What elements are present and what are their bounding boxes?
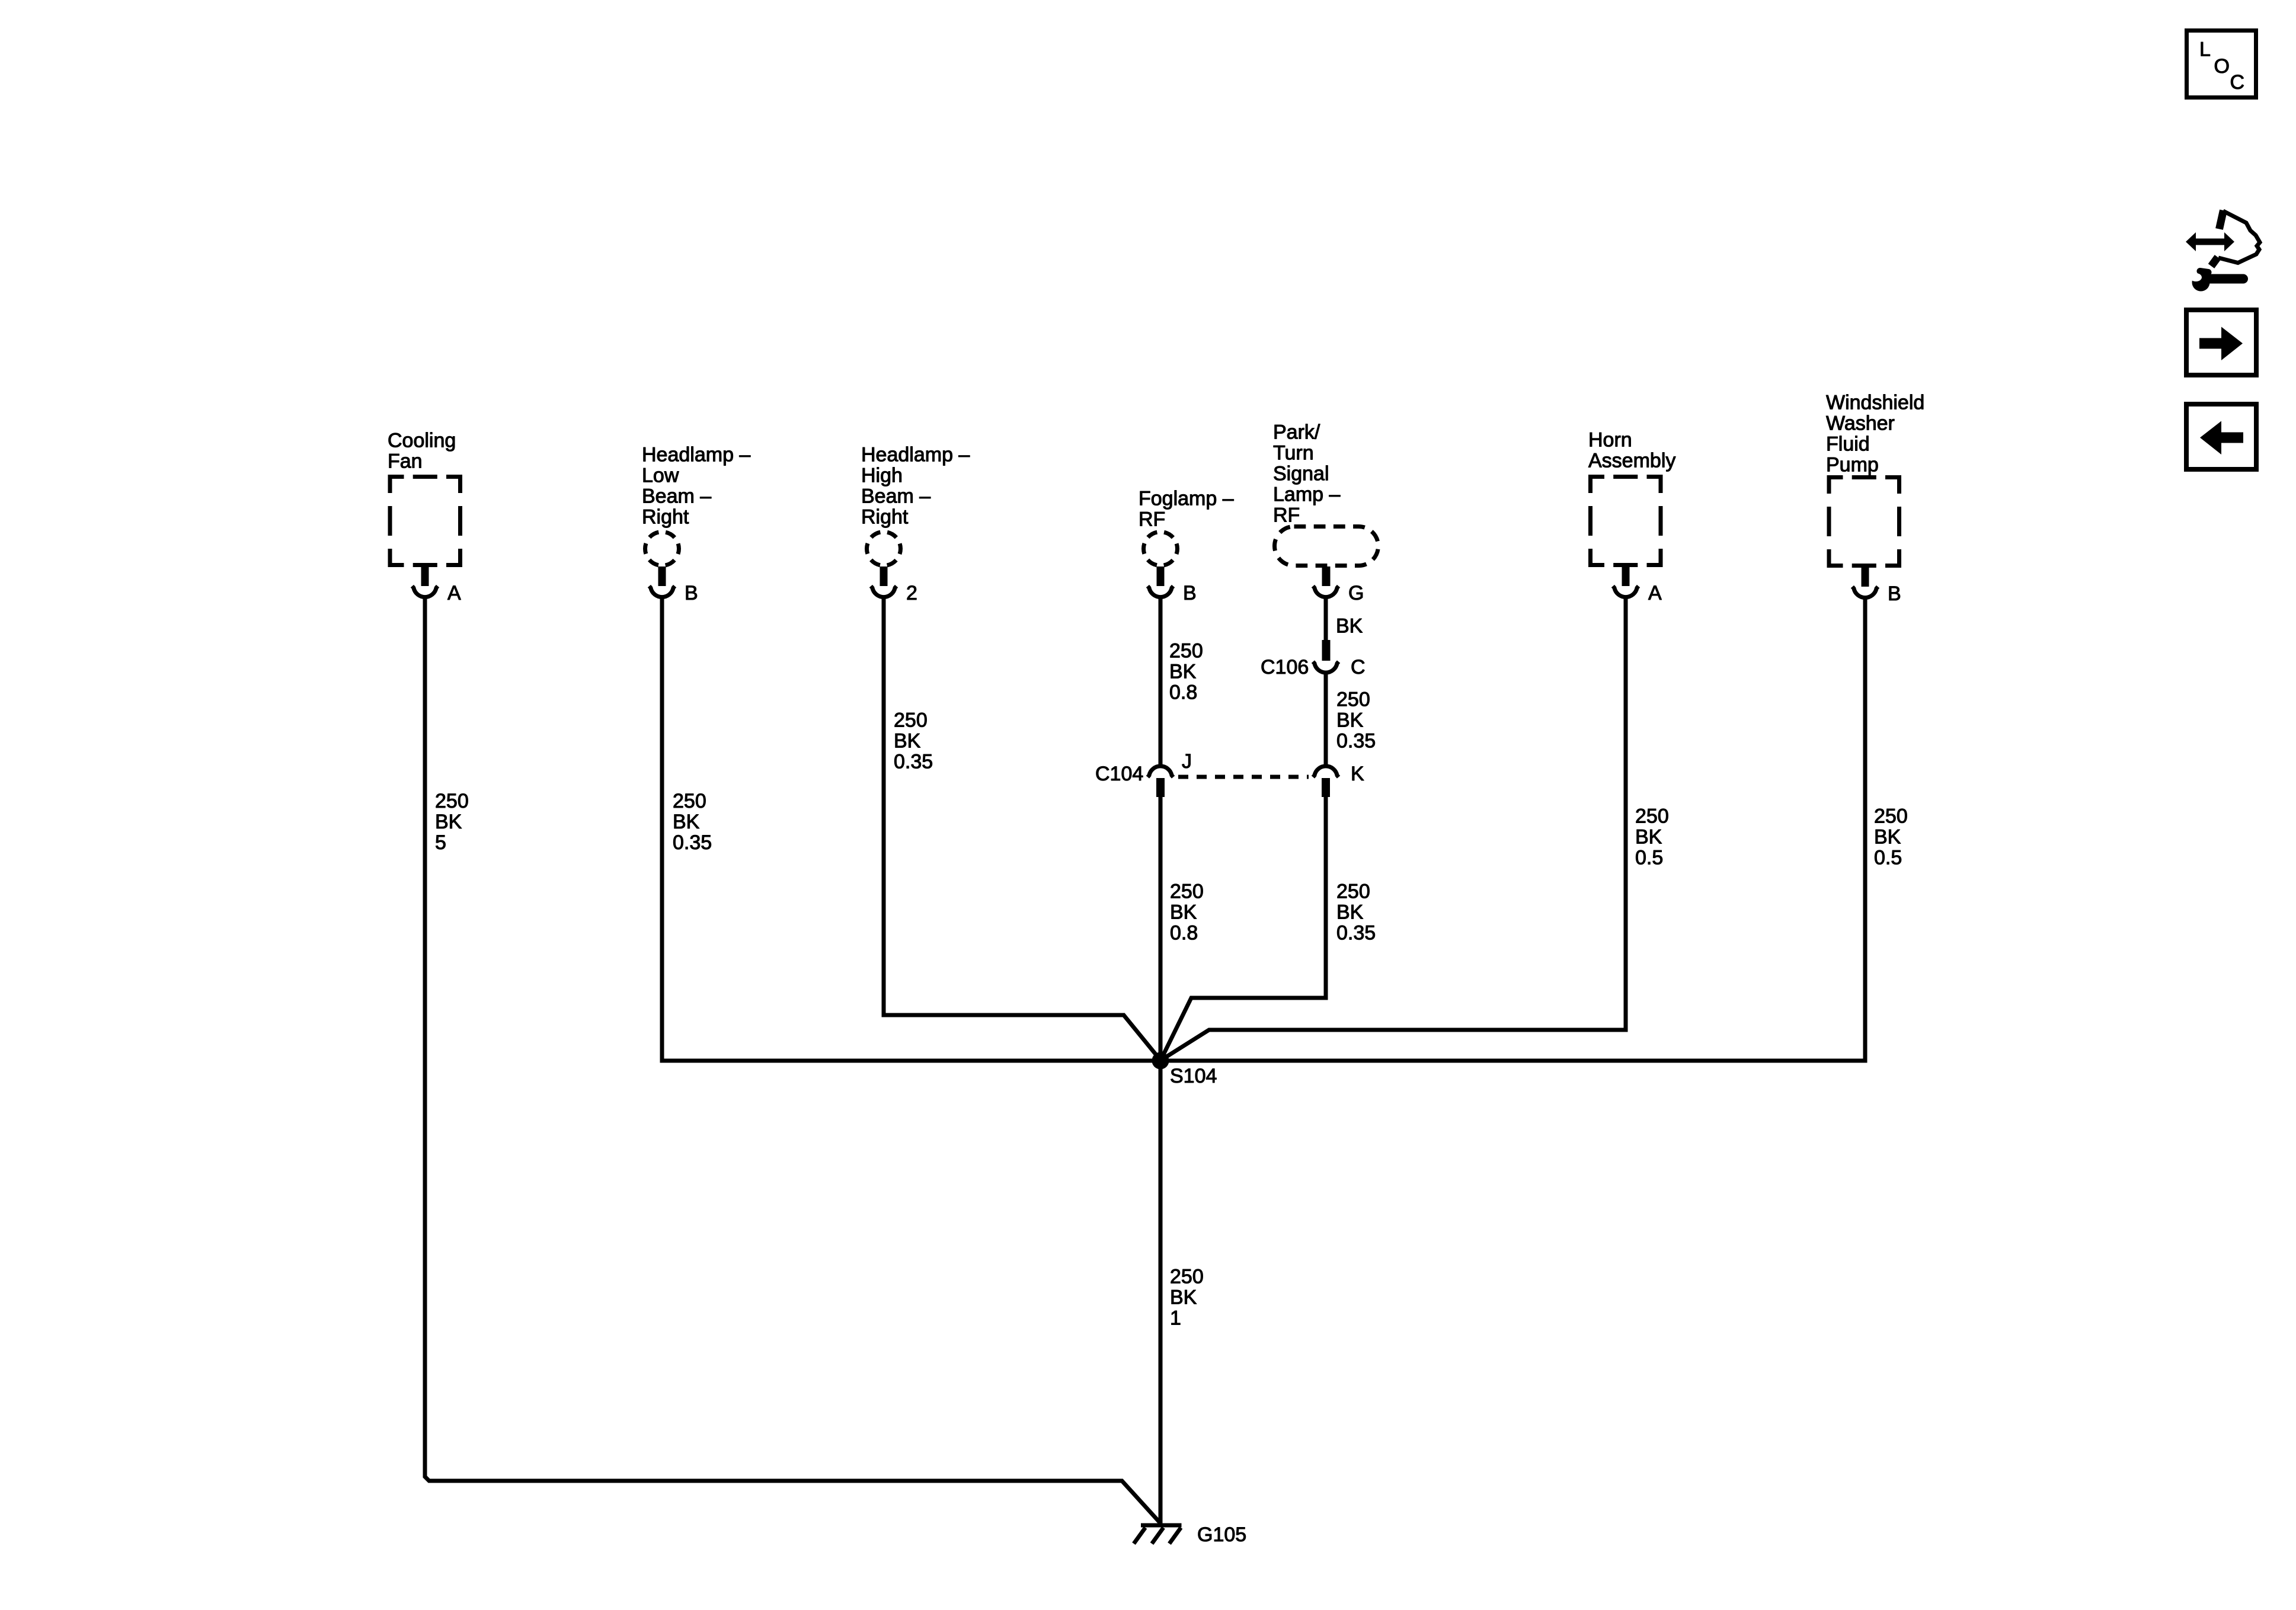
svg-text:B: B <box>1183 582 1197 604</box>
cooling fan connector cavity A <box>412 586 437 597</box>
wire: cooling fan pin A down, across, to G105 <box>425 597 1160 1523</box>
cooling fan component box (dashed) <box>390 477 461 565</box>
connector C104 cavity J <box>1147 766 1173 777</box>
LOC hotlink box <box>2187 31 2256 98</box>
park/turn signal lamp stadium outline (dashed) <box>1275 527 1379 566</box>
wire: C106 pin C down to C104 pin K <box>1324 674 1328 765</box>
connector C104 cavity K <box>1313 766 1338 777</box>
high beam connector cavity 2 <box>871 586 896 597</box>
headlamp low beam lamp circle (dashed) <box>645 532 679 566</box>
electrical repair reference icon (double arrow, body outline, wrench) <box>2186 210 2260 292</box>
washer pump component box (dashed) <box>1829 478 1900 566</box>
horn connector cavity A <box>1613 586 1638 597</box>
svg-text:S104: S104 <box>1170 1065 1217 1087</box>
svg-text:C106: C106 <box>1261 656 1309 678</box>
svg-text:B: B <box>685 582 698 604</box>
svg-text:J: J <box>1182 750 1192 773</box>
high beam pin stub <box>880 566 888 586</box>
svg-text:2: 2 <box>906 582 917 604</box>
low beam connector cavity B <box>649 586 674 597</box>
svg-text:G: G <box>1348 582 1364 604</box>
connector C106 cavity C <box>1313 662 1338 673</box>
wire: low beam pin B down to bus <box>660 597 664 1063</box>
park/turn connector cavity G <box>1313 586 1338 597</box>
foglamp pin stub <box>1157 566 1165 586</box>
wire: horn horizontal run into S104 <box>1161 1030 1626 1060</box>
headlamp high beam lamp circle (dashed) <box>867 532 901 566</box>
wire: high beam horizontal run into S104 <box>884 1015 1160 1060</box>
wire: S104 down to ground G105 <box>1159 1061 1163 1523</box>
horn assembly component box (dashed) <box>1591 477 1661 565</box>
foglamp connector cavity B <box>1147 586 1173 597</box>
svg-text:C: C <box>1351 656 1366 678</box>
svg-text:C104: C104 <box>1095 763 1143 785</box>
wire: C104 pin J down to S104 <box>1159 797 1163 1061</box>
park/turn pin stub <box>1322 566 1331 586</box>
connector C104 pin K male stub <box>1322 778 1330 797</box>
cooling fan pin stub <box>421 566 429 586</box>
wire: horn pin A down, across, diagonal into S104 <box>1624 597 1628 1032</box>
splice S104 junction dot <box>1152 1052 1169 1070</box>
wire: park/turn pin G down to C106 <box>1324 597 1328 641</box>
horn pin stub <box>1622 566 1630 586</box>
connector C104 pin J male stub <box>1156 778 1165 797</box>
back arrow box <box>2186 404 2256 469</box>
forward arrow box <box>2186 310 2256 375</box>
svg-text:C: C <box>2230 71 2245 94</box>
svg-text:K: K <box>1351 763 1364 785</box>
connector C106 male pin (from G) <box>1322 640 1331 661</box>
svg-text:L: L <box>2199 39 2211 61</box>
washer pump pin stub <box>1862 567 1869 587</box>
wire: C104 pin K down, across, diagonal into S104 <box>1324 797 1328 1000</box>
low beam pin stub <box>658 566 666 586</box>
wire: washer pump pin B down to bus <box>1863 598 1868 1063</box>
foglamp lamp circle (dashed) <box>1144 532 1178 566</box>
svg-text:BK: BK <box>1336 614 1363 637</box>
wire: foglamp pin B down to C104 pin J <box>1159 597 1163 765</box>
wire: high beam pin 2 down, across, diagonal into S104 <box>882 597 886 1017</box>
svg-text:G105: G105 <box>1197 1523 1246 1546</box>
svg-text:B: B <box>1888 582 1901 605</box>
svg-text:A: A <box>1648 582 1662 604</box>
svg-text:O: O <box>2214 55 2230 78</box>
washer pump connector cavity B <box>1852 587 1878 597</box>
wire: ground bus S104 row <box>662 1059 1865 1063</box>
dashed tie line between C104 J and K <box>1178 775 1309 779</box>
svg-text:A: A <box>447 582 461 604</box>
ground symbol G105 <box>1134 1525 1182 1544</box>
wire: C104 K horizontal run into S104 <box>1161 998 1326 1060</box>
